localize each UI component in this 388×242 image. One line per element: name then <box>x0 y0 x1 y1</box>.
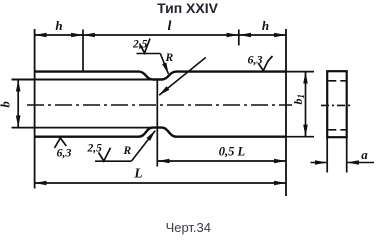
end view extension line left <box>326 137 328 172</box>
svg-text:b1: b1 <box>291 94 306 105</box>
svg-text:Тип XXIV: Тип XXIV <box>157 0 219 16</box>
arrow h2 right <box>276 34 285 36</box>
roughness 2,5 top leader slant with arrow into notch <box>160 54 168 74</box>
extension line h1/l boundary <box>82 30 84 72</box>
svg-text:h: h <box>55 18 62 33</box>
svg-text:6,3: 6,3 <box>248 53 263 67</box>
arrow 0,5L left <box>158 160 168 162</box>
dimension a right segment <box>348 162 374 164</box>
roughness 6,3 bottom left check mark <box>55 138 67 148</box>
inner reduced-section line bottom (b level) <box>12 127 158 129</box>
arrow b down <box>17 117 19 127</box>
roughness check mark top <box>140 39 151 54</box>
end view centerline <box>321 104 353 106</box>
dimension L line <box>35 182 286 184</box>
arrow l right <box>228 34 238 36</box>
arrow b1 up <box>305 72 307 82</box>
svg-text:Черт.34: Черт.34 <box>166 220 211 235</box>
b1 extension line bottom <box>286 136 314 138</box>
dimension b1 vertical line <box>305 72 307 137</box>
top dimension line h l h <box>35 34 286 36</box>
svg-text:l: l <box>168 19 172 34</box>
arrow b1 down <box>305 126 307 136</box>
end view hidden edge top (dashed) <box>328 80 346 82</box>
svg-text:0,5 L: 0,5 L <box>219 145 246 159</box>
specimen bottom edge with central notch R <box>35 128 286 137</box>
dimension b vertical line <box>17 80 19 128</box>
arrow h1 left <box>35 34 45 36</box>
specimen top edge with central notch R <box>35 72 286 80</box>
svg-text:R: R <box>165 52 174 64</box>
arrow 0,5L right <box>276 160 285 162</box>
main axis dash-dot centerline <box>27 104 292 106</box>
end view extension line right <box>346 137 348 172</box>
roughness check mark bottom <box>99 148 111 161</box>
dimension 0,5L line <box>157 160 286 162</box>
svg-text:R: R <box>123 145 132 157</box>
b1 extension line top <box>286 71 314 73</box>
arrow L left <box>35 182 45 184</box>
svg-text:L: L <box>133 166 142 181</box>
roughness 2,5 bottom leader slant with arrow into notch <box>131 131 155 162</box>
roughness 2,5 bottom leader shelf <box>95 160 131 162</box>
center extension line at notch (weld axis) <box>156 80 158 167</box>
specimen left end edge / extension line <box>34 29 36 189</box>
dimension a left segment <box>311 162 327 164</box>
roughness 6,3 top right check mark <box>259 56 273 71</box>
end view hidden edge bottom (dashed) <box>328 129 346 131</box>
arrow h2 left <box>240 34 249 36</box>
svg-text:2,5: 2,5 <box>87 143 103 155</box>
weld axis leader diagonal <box>159 57 206 95</box>
arrow h1 right <box>73 34 82 36</box>
svg-text:6,3: 6,3 <box>57 146 72 160</box>
svg-text:b: b <box>0 101 13 107</box>
specimen right end edge / extension line <box>285 29 287 196</box>
arrow l left <box>84 34 93 36</box>
inner reduced-section line top (b level) <box>12 79 158 81</box>
end view outline <box>327 71 347 137</box>
roughness 2,5 top leader shelf <box>137 53 161 55</box>
arrow L right <box>276 182 285 184</box>
arrow b up <box>17 80 19 90</box>
svg-text:a: a <box>361 147 368 162</box>
svg-text:2,5: 2,5 <box>132 39 148 51</box>
extension line l/h2 boundary <box>238 30 240 46</box>
svg-text:h: h <box>262 18 269 33</box>
